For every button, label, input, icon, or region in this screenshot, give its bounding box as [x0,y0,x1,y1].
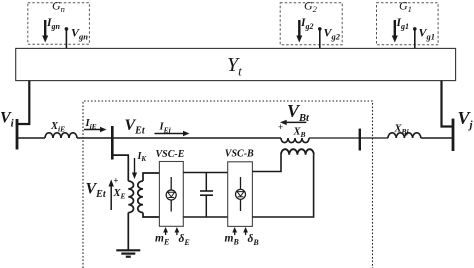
current I_g1 arrow [392,17,409,42]
valve symbol VSC-B [236,177,246,211]
svg-text:XB: XB [293,126,306,139]
UPFC dashed boundary [83,101,373,268]
wire V_g2 to Y_t [319,29,321,49]
converter VSC-E box [156,149,185,226]
network admittance block Y_t [16,48,456,80]
wire node bar to shunt branch [112,155,128,181]
wire X_B to node tick [309,137,360,139]
DC link bottom wire [183,216,228,218]
current I_iE arrow [84,118,107,132]
wire X_E secondary top to VSC-E [143,173,160,181]
current I_Ej arrow [155,121,190,136]
transformer X_E left winding [128,181,133,213]
svg-text:IK: IK [137,151,148,163]
reactance X_Bj coil [388,133,421,138]
wire Y_t to bus V_j [442,81,454,127]
svg-text:+: + [278,122,283,132]
svg-text:XiE: XiE [50,121,65,134]
svg-text:δE: δE [179,233,190,247]
svg-text:VBt: VBt [287,101,310,124]
current I_gn arrow [42,17,60,42]
generator G_1 box [377,0,439,45]
wire V_gn to Y_t [65,29,67,49]
svg-text:Vi: Vi [0,110,15,130]
wire X_E left winding to ground [127,213,129,251]
valve symbol VSC-E [166,177,176,212]
wire Y_t to bus V_i [17,81,29,124]
svg-text:VSC-E: VSC-E [156,149,185,160]
wire X_Bj to bus V_j [421,137,453,139]
svg-text:Gn: Gn [52,0,65,14]
wire X_iE to node Et [77,137,112,139]
node tick on line [359,129,361,151]
bus V_j bar [452,119,455,151]
wire bus V_i to X_iE [17,137,45,139]
svg-text:mB: mB [225,232,240,246]
svg-text:VSC-B: VSC-B [225,149,254,160]
generator G_n box [28,0,90,44]
DC capacitor [200,173,213,218]
bus V_i bar [16,119,19,150]
current I_K arrow [132,151,148,179]
wire X_E secondary bottom to VSC-E [143,213,160,217]
node V_g2 dot [318,26,341,42]
ground [116,250,140,256]
svg-text:G1: G1 [399,0,412,14]
svg-text:Vj: Vj [458,108,474,131]
wire V_g1 to Y_t [414,29,416,49]
converter VSC-B box [225,149,254,227]
svg-text:VEt: VEt [86,181,107,201]
reactance X_iE coil [45,133,77,138]
transformer X_B upper winding [281,138,309,143]
generator G_2 box [280,0,342,45]
svg-text:IEj: IEj [159,121,172,134]
node V_gn dot [65,26,89,42]
svg-text:IiE: IiE [85,118,97,131]
transformer X_B lower winding [281,149,314,155]
current I_g2 arrow [296,17,313,42]
wire node tick to X_Bj [360,137,388,139]
voltage V_Bt arrow and plus [278,101,310,132]
control inputs m_B delta_B [225,227,260,247]
svg-text:VEt: VEt [125,117,146,137]
svg-text:XE: XE [113,188,126,201]
svg-text:+: + [113,175,118,185]
DC link top wire [183,172,228,174]
svg-text:G2: G2 [304,0,318,14]
svg-text:δB: δB [248,233,260,247]
wire VSC-B to X_B lower winding left [252,155,281,172]
wire VSC-B bottom to X_B lower winding right [252,155,313,217]
voltage V_Et shunt arrow and plus [86,175,119,210]
svg-text:XBj: XBj [394,124,410,137]
wire node Et to X_B [112,137,281,139]
node bar V_Et [111,126,114,160]
node V_g1 dot [413,26,435,42]
control inputs m_E delta_E [155,227,190,247]
svg-text:mE: mE [155,232,169,246]
transformer X_E right winding [138,181,143,213]
